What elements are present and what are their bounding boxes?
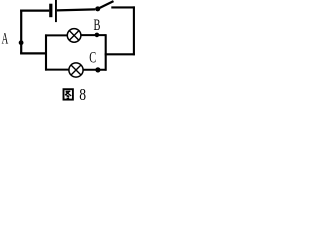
wire <box>20 52 47 54</box>
wire <box>45 34 68 36</box>
svg-text:B: B <box>94 17 101 34</box>
label: 图 (figure) <box>64 89 73 99</box>
node B <box>95 33 100 38</box>
lamp L2 <box>69 63 83 77</box>
svg-text:A: A <box>2 31 9 48</box>
wire <box>20 10 22 54</box>
svg-text:C: C <box>89 50 96 67</box>
lamp L1 <box>67 29 81 43</box>
node C <box>95 67 100 72</box>
wire <box>57 9 95 10</box>
wire <box>20 9 49 11</box>
wire <box>133 6 135 55</box>
wire <box>81 34 106 36</box>
svg-text:8: 8 <box>79 85 86 104</box>
wire <box>105 34 107 70</box>
node A <box>19 40 24 45</box>
wire <box>45 34 47 70</box>
battery BT1 <box>49 0 57 22</box>
wire <box>45 69 70 71</box>
wire <box>83 69 107 71</box>
wire <box>111 6 135 8</box>
switch S1 <box>95 1 113 11</box>
wire <box>105 53 135 55</box>
